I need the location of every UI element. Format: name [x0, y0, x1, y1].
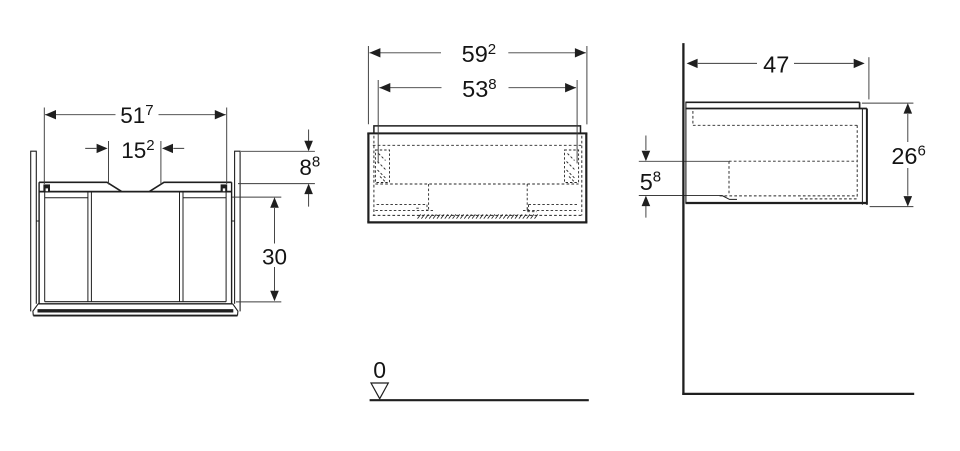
datum triangle [371, 383, 388, 399]
dimension 5.8 (for side view) [639, 136, 729, 218]
front panel edges [861, 109, 863, 205]
right side panel [234, 151, 241, 311]
hidden drawer mid line (dashed) [375, 183, 578, 185]
plinth bottom edge [33, 315, 237, 317]
side panel joint ticks [36, 220, 234, 222]
plinth top line [38, 303, 233, 305]
body right edge [585, 133, 587, 222]
carcass top edge [39, 191, 232, 193]
body top edge [367, 132, 587, 134]
left mounting clip [43, 184, 50, 191]
body left edge [367, 133, 369, 222]
hidden bottom line (dashed) [373, 214, 582, 216]
left side panel [30, 151, 37, 311]
cabinet back edge [685, 102, 687, 203]
carcass side walls [39, 182, 232, 303]
bottom back step [722, 196, 737, 200]
hidden drawer top (dashed) [373, 144, 582, 146]
dimension 53.8 [378, 80, 577, 163]
plinth chamfered left corner [33, 304, 38, 316]
svg-text:47: 47 [763, 52, 789, 78]
body bottom edge [367, 221, 587, 223]
plinth shadow band [38, 309, 234, 312]
inner cabinet walls [45, 192, 226, 302]
dimension 59.2 [368, 46, 587, 124]
dimension 26.6 [862, 103, 914, 207]
dimension 15.2 [85, 141, 184, 185]
body top edge (side) [685, 108, 867, 110]
right mounting clip [221, 184, 228, 191]
dimension 47 [698, 57, 869, 99]
top cover plate (side) [685, 102, 859, 108]
floor line [682, 393, 914, 395]
dimension 51.7 [44, 108, 226, 185]
drawer divider right pair [180, 192, 184, 302]
washbasin top outline with central recess [39, 182, 232, 191]
side compartment top edges [45, 197, 226, 199]
bottom edge (side) [685, 202, 867, 204]
lower right hidden box (dashed) [523, 184, 579, 212]
drawer divider left pair [88, 192, 92, 302]
hatch strip on bottom [418, 214, 538, 218]
wall line [682, 43, 684, 395]
lower left hidden box (dashed) [375, 184, 433, 211]
svg-text:0: 0 [373, 357, 386, 383]
top cover plate [374, 126, 581, 133]
right runner block (dashed) [565, 150, 579, 183]
plinth chamfered right corner [233, 304, 238, 316]
svg-text:30: 30 [262, 244, 287, 269]
hidden drawer lines (dashed, side) [693, 111, 857, 199]
interior bottom [45, 301, 226, 303]
dimension 30 [232, 197, 281, 302]
left runner block (dashed) [375, 150, 389, 183]
dimension 8.8 extension lines [238, 130, 315, 207]
datum floor line [370, 399, 589, 401]
hidden side edges (dashed) [374, 136, 582, 216]
